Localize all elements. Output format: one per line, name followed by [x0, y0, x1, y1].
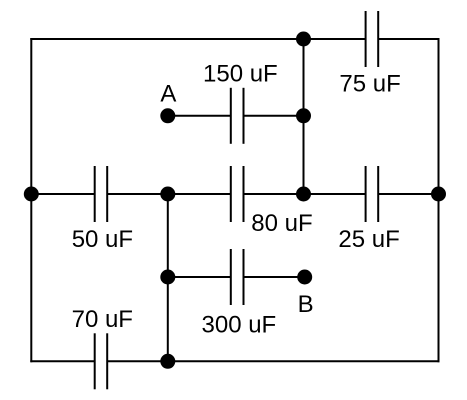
svg-text:70 uF: 70 uF: [72, 306, 133, 333]
svg-text:50 uF: 50 uF: [72, 226, 133, 253]
svg-text:75 uF: 75 uF: [339, 71, 400, 98]
svg-text:A: A: [160, 81, 176, 108]
svg-text:25 uF: 25 uF: [338, 226, 399, 253]
svg-text:150 uF: 150 uF: [203, 61, 278, 88]
svg-text:80 uF: 80 uF: [251, 210, 312, 237]
svg-text:B: B: [298, 291, 314, 318]
svg-text:300 uF: 300 uF: [202, 311, 277, 338]
